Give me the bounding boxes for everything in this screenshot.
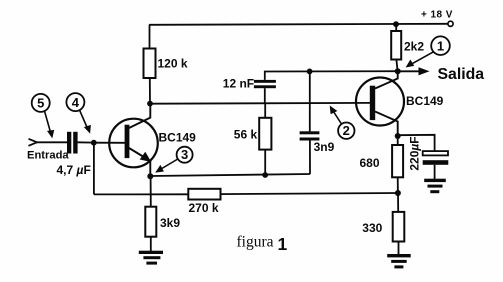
resistor R2 3k9	[145, 207, 156, 237]
node circle 1	[431, 36, 450, 55]
svg-text:270 k: 270 k	[189, 201, 219, 215]
node circle 4	[66, 93, 84, 111]
svg-text:4,7 µF: 4,7 µF	[57, 163, 91, 177]
node 56k on emitter line	[262, 172, 268, 178]
transistor Q1 base bar	[125, 125, 130, 158]
arrow from node 3	[159, 159, 178, 171]
wire 680 bottom lead	[397, 177, 399, 193]
wire 3k9 to ground	[150, 237, 152, 252]
svg-text:BC149: BC149	[406, 94, 444, 108]
svg-text:5: 5	[37, 96, 44, 111]
node Q2 emitter	[395, 133, 401, 139]
wire Q1 emitter down to 3k9	[150, 176, 152, 207]
node circle 5	[32, 94, 50, 112]
ground under 330	[387, 254, 411, 268]
svg-text:12 nF: 12 nF	[223, 77, 254, 91]
resistor R6 680	[392, 145, 403, 177]
svg-text:3k9: 3k9	[160, 216, 180, 230]
svg-text:2k2: 2k2	[404, 40, 424, 54]
wire 3n9 top vertical	[309, 71, 311, 131]
arrow from node 4	[80, 110, 89, 130]
wire emitter line to 56k and 3n9	[150, 174, 310, 176]
wire 3n9 bottom to emitter line	[309, 141, 311, 175]
wire input to capacitor	[36, 141, 67, 143]
wire base line Q1 collector to Q2 base	[150, 102, 372, 105]
svg-text:1: 1	[437, 38, 444, 53]
node circle 3	[177, 147, 193, 163]
svg-text:BC149: BC149	[159, 131, 197, 145]
wire Q2 emitter to 220uF	[398, 135, 435, 151]
svg-text:330: 330	[362, 221, 382, 235]
resistor R3 56k	[259, 118, 271, 150]
transistor Q1 emitter arrowhead	[140, 152, 152, 162]
node Q1 collector / Q2 base line	[147, 101, 153, 107]
+18V terminal	[448, 21, 453, 26]
svg-text:3: 3	[181, 147, 188, 162]
svg-text:Entrada: Entrada	[27, 150, 69, 162]
capacitor C3 3n9 bottom plate	[300, 138, 320, 141]
wire 2k2 top lead	[395, 24, 397, 31]
svg-text:56 k: 56 k	[234, 127, 258, 141]
resistor R1 120k	[144, 49, 156, 79]
ground under 3k9	[139, 251, 163, 265]
wire Q1 emitter lead	[149, 161, 151, 177]
node circle 2	[338, 123, 354, 139]
capacitor C4 220uF minus plate	[423, 160, 449, 165]
arrow from node 5	[45, 111, 52, 134]
capacitor C3 3n9 top plate	[300, 131, 320, 134]
resistor R4 2k2	[391, 31, 401, 60]
wire 330 top lead	[397, 193, 399, 212]
transistor Q2 base bar	[370, 86, 375, 120]
capacitor C2 12nF top plate	[254, 80, 276, 83]
svg-text:+ 18 V: + 18 V	[421, 10, 453, 21]
resistor R7 330	[393, 212, 405, 242]
wire 2k2 bottom lead	[396, 60, 397, 72]
arrow from node 1	[409, 52, 434, 66]
salida arrowhead	[419, 67, 430, 75]
node 680/330 junction	[395, 190, 401, 196]
wire salida	[398, 70, 420, 72]
wire 56k top lead	[264, 103, 266, 117]
svg-text:3n9: 3n9	[314, 140, 335, 154]
transistor Q1 emitter stroke	[129, 148, 148, 160]
wire 12nF top to output line	[265, 71, 398, 80]
wire base node to Q1 base	[94, 142, 125, 144]
node Q1 emitter	[147, 173, 153, 179]
transistor Q2 emitter stroke	[375, 112, 398, 137]
svg-text:220µF: 220µF	[408, 136, 422, 170]
wire 680 top lead	[397, 136, 399, 145]
wire feedback left segment	[94, 193, 188, 195]
wire base node down	[93, 143, 95, 195]
wire feedback right segment	[221, 193, 398, 194]
node Q2 collector / salida	[395, 68, 401, 74]
svg-text:2: 2	[343, 123, 350, 138]
capacitor C1 4,7uF plate left	[67, 132, 71, 154]
transistor Q2 collector stroke	[375, 71, 398, 88]
node Q1 base	[91, 140, 97, 146]
node 3n9 top on output line	[307, 69, 313, 75]
wire 120k top lead	[149, 25, 151, 49]
capacitor C1 4,7uF plate right	[73, 132, 77, 154]
input chevron	[29, 139, 38, 146]
arrow from node 2	[332, 109, 342, 125]
svg-text:1: 1	[278, 234, 288, 254]
transistor Q1 BC149 circle	[109, 119, 158, 168]
svg-text:680: 680	[360, 156, 380, 170]
svg-text:figura: figura	[237, 234, 274, 251]
wire 12nF bottom to base line	[264, 88, 266, 103]
transistor Q1 collector stroke	[129, 104, 150, 128]
wire 56k bottom lead	[264, 150, 266, 175]
wire 120k bottom lead	[149, 78, 151, 104]
node junction rail/2k2	[393, 21, 399, 27]
wire capacitor to base node	[78, 141, 94, 143]
transistor Q2 BC149 circle	[356, 78, 404, 126]
resistor R5 270k	[188, 189, 220, 200]
ground under 220uF	[424, 179, 446, 194]
wire top supply rail	[149, 24, 448, 25]
svg-text:Salida: Salida	[438, 66, 485, 83]
wire 220uF to ground	[434, 165, 436, 179]
svg-text:120 k: 120 k	[158, 57, 188, 71]
wire 330 to ground	[398, 242, 400, 255]
capacitor C4 220uF plus plate	[423, 151, 448, 155]
svg-text:4: 4	[72, 95, 80, 110]
capacitor C2 12nF bottom plate	[254, 85, 276, 88]
